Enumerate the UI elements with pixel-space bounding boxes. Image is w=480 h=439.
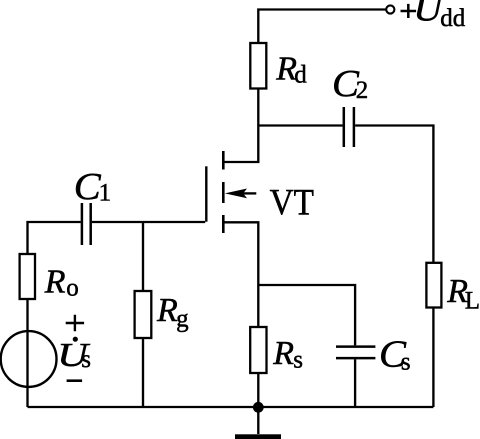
wire: Rg top lead from gate wire node: [142, 222, 144, 291]
label Rd: [275, 50, 307, 88]
transistor VT (N-channel MOSFET): [206, 151, 256, 233]
wire: Rd bottom down to drain lead of VT: [223, 89, 259, 163]
svg-text:2: 2: [356, 77, 369, 104]
svg-text:1: 1: [99, 180, 112, 207]
ground: [235, 407, 281, 439]
wire: drain node to C2 left plate: [258, 124, 342, 126]
supply terminal +Udd (open circle): [386, 5, 394, 13]
svg-text:R: R: [272, 335, 294, 372]
resistor Rg: [135, 291, 152, 338]
svg-text:o: o: [66, 275, 79, 302]
wire: bottom rail: [28, 406, 434, 408]
resistor Rs: [250, 327, 266, 373]
label Us with polarity marks: [57, 315, 91, 381]
svg-text:s: s: [401, 349, 411, 376]
label Rg: [156, 292, 189, 333]
label C1: [74, 166, 111, 208]
svg-text:s: s: [81, 346, 91, 373]
svg-text:g: g: [176, 306, 189, 333]
node: ground junction dot: [253, 402, 264, 413]
svg-text:R: R: [44, 263, 66, 300]
wire: source node across and down to Cs top plate: [258, 285, 355, 345]
wire: drain node up and across to +Udd supply terminal: [258, 10, 385, 44]
label C2: [332, 63, 368, 105]
source Us (signal source circle): [1, 331, 57, 387]
wire: input node left and down to Ro top: [28, 222, 81, 254]
label Ro: [44, 263, 79, 301]
wire: Cs bottom plate to bottom rail: [354, 359, 356, 407]
wire: source lead of VT down to Rs top: [223, 222, 259, 327]
svg-text:R: R: [156, 292, 178, 329]
label RL: [446, 273, 480, 315]
svg-text:d: d: [294, 61, 307, 88]
capacitor C2: [344, 107, 354, 147]
resistor Rd: [250, 43, 266, 89]
svg-text:VT: VT: [270, 183, 314, 224]
label Rs: [272, 335, 303, 374]
wire: Rg bottom lead to bottom rail: [142, 338, 144, 407]
svg-text:dd: dd: [440, 5, 466, 32]
resistor RL: [426, 263, 441, 308]
capacitor Cs: [336, 347, 375, 359]
svg-text:s: s: [293, 346, 303, 373]
svg-text:C: C: [74, 166, 102, 208]
capacitor C1: [82, 203, 91, 245]
wire: RL bottom to bottom rail: [432, 308, 434, 408]
wire: Rs bottom to ground junction: [257, 373, 259, 407]
resistor Ro: [20, 254, 35, 299]
svg-text:L: L: [465, 287, 480, 314]
wire: C1 right plate across to gate of VT: [92, 221, 205, 223]
label Cs: [379, 334, 411, 376]
wire: C2 right plate across and down to RL: [355, 126, 433, 263]
label +Udd: [401, 0, 466, 32]
wire: Ro bottom through source Us to bottom rail: [26, 299, 28, 407]
